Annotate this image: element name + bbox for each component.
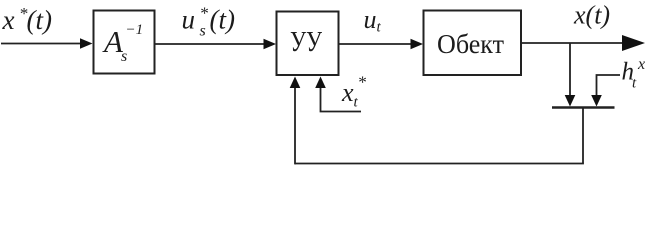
- label x*(t) input signal: [2, 4, 52, 35]
- sensor bar: [552, 106, 615, 108]
- block A_s^-1: [94, 11, 155, 74]
- label x_t^*: [341, 73, 367, 111]
- svg-text:Обект: Обект: [437, 29, 504, 59]
- wire sensor bar down to feedback line: [582, 108, 584, 164]
- wire input to A block: [1, 38, 93, 49]
- wire Obekt output with big arrow: [521, 35, 645, 51]
- wire feedback bottom horizontal: [295, 163, 584, 165]
- block Obekt (plant): [424, 11, 522, 76]
- label u_s*(t): [182, 4, 235, 40]
- block UU (controller): [277, 12, 339, 76]
- label u_t: [364, 5, 382, 36]
- label h_t^x: [622, 56, 646, 92]
- svg-text:УУ: УУ: [290, 27, 322, 58]
- wire from h_t^x label down to sensor bar: [591, 75, 620, 107]
- wire branch from output down to sensor bar: [565, 43, 576, 107]
- wire feedback up into UU block: [290, 77, 301, 165]
- svg-text:x(t): x(t): [573, 1, 610, 30]
- svg-text:x*(t): x*(t): [2, 4, 52, 35]
- wire x_t^* into UU block bottom: [315, 77, 361, 112]
- label x(t) output signal: [573, 1, 610, 30]
- wire UU block to Obekt block: [339, 39, 423, 50]
- wire A block to UU block: [155, 39, 276, 50]
